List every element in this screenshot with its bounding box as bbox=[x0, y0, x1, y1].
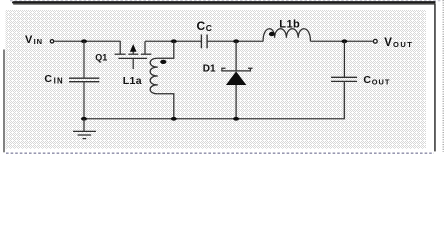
polarity dot L1a bbox=[160, 60, 166, 64]
wire CIN bottom branch bbox=[83, 82, 85, 119]
diode D1 (Schottky) bbox=[222, 41, 253, 119]
wire L1b to VOUT bbox=[310, 40, 372, 42]
svg-text:C: C bbox=[363, 74, 371, 86]
svg-text:Q1: Q1 bbox=[95, 52, 107, 62]
svg-text:V: V bbox=[25, 34, 33, 46]
transistor Q1 (N-channel MOSFET) bbox=[115, 41, 152, 69]
wire ground rail bbox=[84, 81, 344, 118]
svg-text:C: C bbox=[44, 73, 52, 85]
node VOUT output terminal bbox=[373, 39, 377, 43]
svg-text:C: C bbox=[206, 23, 212, 33]
polarity dot L1b bbox=[269, 32, 275, 36]
wire VIN terminal to Q1 drain bbox=[54, 40, 121, 42]
capacitor C_C bbox=[201, 35, 207, 49]
svg-text:IN: IN bbox=[34, 37, 44, 46]
node junction L1a top bbox=[171, 39, 177, 43]
node junction D1 top bbox=[233, 39, 239, 43]
node VIN input terminal bbox=[50, 40, 53, 43]
node junction L1a bottom bbox=[171, 117, 177, 121]
node junction COUT top bbox=[341, 39, 347, 43]
svg-text:OUT: OUT bbox=[372, 77, 391, 86]
capacitor C_OUT bbox=[331, 41, 357, 119]
capacitor C_IN bbox=[69, 78, 99, 82]
wire CIN top branch bbox=[83, 41, 85, 78]
svg-text:L1b: L1b bbox=[279, 18, 300, 30]
node junction CIN top bbox=[81, 39, 87, 43]
svg-text:OUT: OUT bbox=[393, 40, 413, 49]
svg-text:IN: IN bbox=[54, 76, 64, 85]
svg-text:D1: D1 bbox=[203, 64, 216, 75]
inductor L1a bbox=[150, 41, 174, 119]
wire Q1 source to CC bbox=[145, 40, 201, 42]
node junction CIN bottom / ground bbox=[81, 117, 87, 121]
node junction D1 bottom bbox=[233, 117, 239, 121]
ground bbox=[73, 119, 96, 139]
wire CC to L1b bbox=[207, 40, 263, 42]
svg-text:C: C bbox=[197, 19, 206, 33]
inductor L1b bbox=[263, 29, 310, 42]
svg-text:V: V bbox=[384, 37, 392, 49]
svg-text:L1a: L1a bbox=[123, 75, 142, 87]
